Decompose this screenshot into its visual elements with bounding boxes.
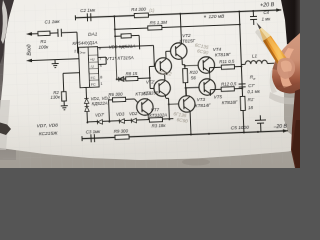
wire VT5 emitter to R12 [210,89,221,95]
capacitor C2 [80,8,96,22]
resistor R2 [50,90,66,102]
wire VT2 emitter to R10 column [182,60,185,69]
transistor Q VT4 [198,56,215,74]
resistor R13 [240,96,254,111]
svg-text:R8 15: R8 15 [125,71,137,76]
svg-text:2: 2 [74,49,76,53]
svg-text:R5 1,3М: R5 1,3М [150,20,168,26]
left table strip [0,0,16,160]
top-right dark edge [281,0,300,44]
svg-text:0,1 мк: 0,1 мк [247,89,261,95]
finger shadow near pencil tip contact [273,54,284,70]
svg-text:КД522А: КД522А [92,101,108,107]
svg-text:18: 18 [248,105,254,110]
painted body [263,36,290,69]
svg-text:1 мк: 1 мк [261,16,271,21]
svg-text:VT2': VT2' [146,79,155,84]
wire VT3 emitter to bottom rail [189,113,192,134]
svg-text:VT1* КТ315А: VT1* КТ315А [106,55,134,61]
wire driver column x150 [149,66,155,88]
diode VD1 [84,98,89,103]
resistor R7 [121,34,131,38]
node rail arrow -20V [283,129,288,133]
svg-text:R3 18к: R3 18к [152,123,167,129]
capacitor C4 [250,10,272,25]
svg-text:С1 1мк: С1 1мк [44,19,60,25]
wire rail to VT2 collector [180,14,181,43]
wire line y35 with R7 [115,35,140,50]
diode VD in R8 line [119,77,124,82]
wire VT1-VT7 link [164,51,172,79]
svg-text:+U: +U [90,58,95,62]
wire vertical from rail at x117 [113,16,116,36]
pencil [255,23,290,70]
svg-text:КТ814Г: КТ814Г [195,102,211,108]
svg-text:VT5: VT5 [213,94,222,99]
svg-text:VD7': VD7' [95,112,104,117]
shadow under pencil [255,29,280,60]
resistor R4 [131,7,148,18]
svg-text:VD6 КД521А: VD6 КД521А [108,44,135,50]
svg-text:R12 0,5: R12 0,5 [221,81,237,87]
wire VT8 emitter-ish stub [147,116,149,120]
paper sheet [0,0,296,160]
svg-text:FC: FC [91,76,96,80]
svg-text:+20 В: +20 В [260,2,275,9]
resistor R12 [221,81,242,91]
svg-text:R6 300: R6 300 [108,91,123,97]
wire R10 bottom to VT3 [185,82,199,96]
svg-text:56: 56 [191,75,197,80]
graphite tip [257,23,262,30]
resistor R6 [108,91,125,102]
shadow band under fingertip [269,92,298,104]
svg-text:С3 1мк: С3 1мк [86,129,101,135]
wire VT8 base tap [169,103,179,105]
ground symbol R2 [61,101,68,110]
wire VT4-VT5 link [209,74,211,79]
op-amp U1 [74,46,103,88]
ground symbol input [51,59,58,67]
white streak object top-left [1,0,8,44]
finger lower shadow [276,82,300,94]
diode VD3 [97,120,102,125]
svg-text:С4: С4 [263,10,269,15]
wire vertical x117 lower [115,36,117,79]
svg-text:С2 1мк: С2 1мк [80,8,96,14]
node input gnd arrow [26,59,32,63]
resistor R8 [125,71,138,81]
transistor Q VT7 [154,79,171,97]
resistor R11 [219,58,241,69]
paper tonal overlay [0,0,296,160]
svg-text:R4 300: R4 300 [131,7,146,13]
paper shadow left of finger [270,70,277,93]
wire top +20V rail [75,10,281,18]
faint squared-paper grid [0,0,303,174]
wire ground line [31,59,79,61]
wire VT4 base from x185 col [185,64,198,67]
wire output column x242 [239,12,244,133]
node bottom rail left terminal [81,136,83,141]
node rail left terminal [74,15,76,20]
capacitor C5 [230,115,266,133]
INK [24,0,288,144]
svg-text:L1: L1 [252,53,258,58]
transistor Q VT8 [136,98,153,116]
bottom -20V rail [82,131,288,139]
diode VD4 [119,119,124,124]
finger [272,33,300,94]
resistor R5 [148,20,168,30]
svg-text:R1': R1' [248,97,255,102]
diode VD2 [85,106,90,111]
wire op-amp output [98,45,155,68]
svg-text:КС215Ж: КС215Ж [39,131,58,138]
transistor Q VT1 [155,57,172,75]
wire R6 line [109,99,139,121]
fingertip overlapping pencil end [277,58,295,79]
wire opamp pin4 to R2 [63,73,80,92]
wire VT7 emitter down to diode line [166,97,170,120]
node input arrow [26,32,32,36]
svg-text:–20 В: –20 В [273,124,288,131]
wood cone [259,28,271,41]
svg-text:120 мВ: 120 мВ [208,14,225,21]
svg-text:н: н [253,77,255,81]
svg-text:130к: 130к [50,94,61,99]
svg-text:1: 1 [100,82,102,86]
svg-text:VT3: VT3 [197,97,206,102]
transistor Q VT2 [170,42,187,60]
svg-text:8: 8 [100,75,102,79]
capacitor C3 [86,129,102,143]
svg-text:КТ361А: КТ361А [135,91,151,97]
svg-text:КТ819Г: КТ819Г [215,52,231,58]
dark pen tip on left edge [0,123,11,136]
svg-text:DA1: DA1 [88,31,98,37]
node rail arrow +20V [276,8,281,12]
svg-text:С5 1000: С5 1000 [231,125,250,132]
transistor Q VT5 [199,78,216,96]
svg-text:R9 300: R9 300 [114,128,129,134]
svg-text:VD2: VD2 [129,111,138,116]
resistor R1 [38,31,51,50]
smudge below paper edge [182,159,210,166]
wire opamp bottom to diode line [86,87,87,121]
top-left dark corner [0,0,14,64]
wire feedback line R5 [115,25,240,30]
wire diode line y120 [87,119,173,122]
svg-text:Вход: Вход [26,44,32,56]
svg-text:VD3: VD3 [116,112,125,117]
svg-text:КР544УД1А: КР544УД1А [72,40,97,46]
svg-text:КТ818Г: КТ818Г [222,100,238,106]
wire VT4 emitter to R11 [209,67,221,73]
diode VD5 [131,118,136,123]
finger highlight [280,48,294,88]
paper lower-left second sheet tint [0,100,10,150]
wire input [31,32,79,55]
dark strip right edge below finger [291,89,300,168]
svg-text:R11 0,5: R11 0,5 [219,59,235,65]
pencil handwriting faint [149,6,212,126]
svg-text:100к: 100к [38,44,49,49]
svg-text:R10: R10 [189,70,198,75]
wire R8 line [117,78,150,79]
svg-text:VD7, VD8: VD7, VD8 [36,123,58,130]
svg-text:>∞: >∞ [80,50,86,55]
inductor L1 [241,53,274,65]
wire VT3 collector up [185,88,187,96]
resistor R10 [183,68,199,83]
svg-text:FC: FC [91,83,96,87]
svg-text:R1: R1 [40,39,47,44]
wire opamp pin stubs right [98,57,106,64]
svg-text:VT7: VT7 [151,107,160,112]
svg-text:(1): (1) [149,8,155,13]
resistor R3 [149,117,166,128]
table background base (bottom strip) [0,0,300,168]
transistor Q VT3 [178,95,195,113]
capacitor C7 [239,83,261,95]
svg-text:С7': С7' [248,83,255,88]
resistor R9 [114,128,129,139]
capacitor C1 [44,19,61,38]
